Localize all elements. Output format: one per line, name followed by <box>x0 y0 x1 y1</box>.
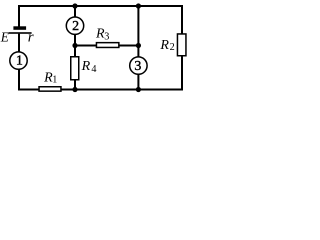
wire: middle branch top node to meter 2 <box>74 5 76 17</box>
node: middle branch at R3 wire <box>72 43 77 48</box>
wire: bottom horizontal bus <box>18 89 183 91</box>
wire: middle branch R4 bottom to bottom node <box>74 80 76 91</box>
svg-text:R: R <box>159 38 169 53</box>
meter 3 circle <box>130 57 147 74</box>
svg-text:3: 3 <box>104 31 109 42</box>
svg-text:1: 1 <box>52 75 57 86</box>
battery cell: thin long bottom plate <box>9 32 32 34</box>
wire: mid-right branch meter 3 to bottom node <box>137 74 139 90</box>
resistor R1 box <box>39 87 61 91</box>
resistor R2 box <box>177 34 186 56</box>
wire: right branch R2 bottom to bottom corner <box>181 56 183 90</box>
svg-text:1: 1 <box>16 54 23 69</box>
svg-text:E: E <box>0 29 9 44</box>
meter 1 circle <box>10 52 27 69</box>
wire: top horizontal bus <box>18 5 183 7</box>
node: mid-right branch at R3 wire <box>136 43 141 48</box>
wire: mid-right branch top node down to meter 3 <box>137 5 139 57</box>
wire: left branch meter 1 to bottom bus <box>18 69 20 90</box>
meter 2 circle <box>66 17 83 34</box>
wire: R3 right lead to mid-right node <box>119 45 139 47</box>
svg-text:2: 2 <box>72 19 79 34</box>
resistor R3 box <box>96 43 118 48</box>
svg-text:R: R <box>81 59 91 74</box>
resistor R4 box <box>71 57 79 80</box>
node: bottom junction middle branch <box>72 87 77 92</box>
wire: right branch top corner to R2 top <box>181 5 183 34</box>
wire: left branch battery to meter 1 <box>18 34 20 52</box>
wire: left branch from top corner down to battery plate <box>18 5 20 27</box>
wire: middle horizontal node to R3 left lead <box>74 45 97 47</box>
svg-text:r: r <box>28 29 34 45</box>
battery cell: thick short top plate <box>13 26 26 30</box>
node: top junction mid-right branch <box>136 3 141 8</box>
node: bottom junction mid-right branch <box>136 87 141 92</box>
wire: middle branch meter 2 through node to R4 top <box>74 35 76 58</box>
node: top junction middle branch <box>72 3 77 8</box>
svg-text:3: 3 <box>134 59 141 74</box>
svg-text:4: 4 <box>91 64 96 75</box>
svg-text:2: 2 <box>170 42 175 53</box>
